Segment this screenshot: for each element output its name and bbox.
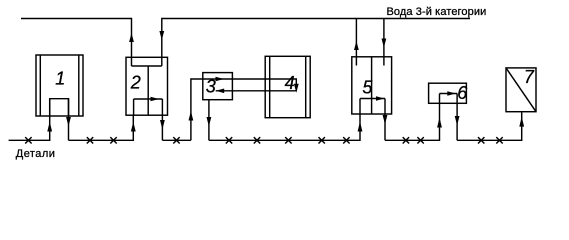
wire: tank 5 left top pipe up to line B [355, 19, 357, 66]
arrow left in tank 3 return [216, 89, 225, 94]
tank 6 box [429, 83, 467, 103]
pipe: feed from conveyor up into tank 3 and on to tank 4 [191, 79, 296, 140]
arrow up below tank 5 [358, 122, 363, 132]
arrow right in tank 2 [151, 97, 160, 102]
arrow down on tank 2 right top pipe [159, 31, 164, 40]
valve x10 [403, 137, 409, 143]
tank 5 outer [352, 57, 392, 114]
wire: tank 5 right top pipe (fresh water inlet) [383, 19, 385, 66]
valve x12 [478, 137, 484, 143]
arrow up below tank 2 [131, 122, 136, 132]
tank 5 divider [371, 57, 373, 114]
tank 7 box [506, 68, 536, 112]
svg-text:2: 2 [130, 72, 141, 92]
tank 4 outer [265, 56, 310, 117]
conveyor segment 2 with riser into tank 2 [69, 115, 134, 140]
tank 4 inner wall left [269, 56, 271, 117]
arrow down on tank 5 right top pipe [382, 39, 387, 48]
pipe: tank 6 outlet down [456, 94, 458, 141]
arrow down below tank 3 [207, 117, 212, 127]
wire: top drain line A from x21 to corner, down into tank 2 [21, 19, 132, 67]
tank 2 bottom notch left wall [133, 99, 135, 115]
arrow up below tank 1 [47, 122, 52, 132]
arrow up on tank 3 feed riser [188, 111, 193, 121]
arrow down below tank 6 [455, 116, 460, 126]
tank 2 transfer line with arrow [134, 98, 163, 100]
pipe: tank 1 outlet down [68, 99, 70, 141]
tank 2 top header bottom line [132, 65, 162, 67]
arrow right in tank 6 [447, 91, 456, 96]
tank 6 transfer line [440, 93, 458, 95]
wire: top recycle line B from tank 5 area to label leader [162, 19, 470, 67]
svg-text:Вода 3-й категории: Вода 3-й категории [387, 6, 487, 18]
valve x13 [496, 137, 502, 143]
tank 3 box [203, 73, 233, 100]
tank 4 inner wall right [305, 56, 307, 117]
valve x11 [417, 137, 423, 143]
arrow down below tank 1 [66, 117, 71, 127]
tank 1 bottom notch [50, 99, 69, 116]
conveyor segment 4 with riser into tank 5 [209, 114, 360, 140]
pipe: tank 5 outlet down [384, 99, 386, 141]
svg-text:5: 5 [362, 78, 373, 98]
valve x8 [319, 137, 325, 143]
arrow up below tank 7 [519, 117, 524, 127]
valve x4 [173, 137, 179, 143]
valve x3 [110, 137, 116, 143]
tank 2 outer [126, 57, 168, 115]
valve x5 [226, 137, 232, 143]
tank 2 divider [147, 66, 149, 115]
svg-text:1: 1 [55, 69, 65, 89]
valve x6 [254, 137, 260, 143]
tank 5 transfer line [360, 98, 385, 100]
svg-text:6: 6 [457, 83, 468, 103]
svg-text:7: 7 [524, 67, 535, 87]
tank 1 outer [36, 55, 83, 116]
svg-text:Детали: Детали [16, 148, 56, 160]
pipe: return line tank 4 to tank 3 [216, 90, 297, 92]
arrow down below tank 5 [383, 115, 388, 125]
arrow up on tank 5 left top pipe [354, 41, 359, 50]
valve x2 [87, 137, 93, 143]
arrow up below tank 6 [437, 118, 442, 128]
valve x9 [343, 137, 349, 143]
conveyor segment 1 with riser into tank 1 [9, 99, 50, 141]
pipe: tank 3 outlet down [208, 100, 210, 141]
arrow right in tank 5 [376, 96, 385, 101]
conveyor segment 6 with riser into tank 7 [457, 112, 522, 141]
arrow down at tank 4 drop [294, 84, 299, 93]
conveyor segment 5 with riser into tank 6 [385, 94, 440, 141]
tank 1 inner wall right [78, 55, 80, 116]
valve x1 [25, 137, 31, 143]
pipe: tank 2 outlet down [161, 99, 163, 140]
tank 5 bottom notch left wall [359, 99, 361, 115]
tank 7 diagonal [506, 68, 536, 112]
arrow right in tank 3 [216, 77, 225, 82]
valve x7 [285, 137, 291, 143]
arrow up on tank 2 left top pipe [129, 33, 134, 42]
tank 1 inner wall left [39, 55, 41, 116]
arrow down below tank 2 [160, 120, 165, 130]
conveyor segment 3 [162, 139, 191, 141]
